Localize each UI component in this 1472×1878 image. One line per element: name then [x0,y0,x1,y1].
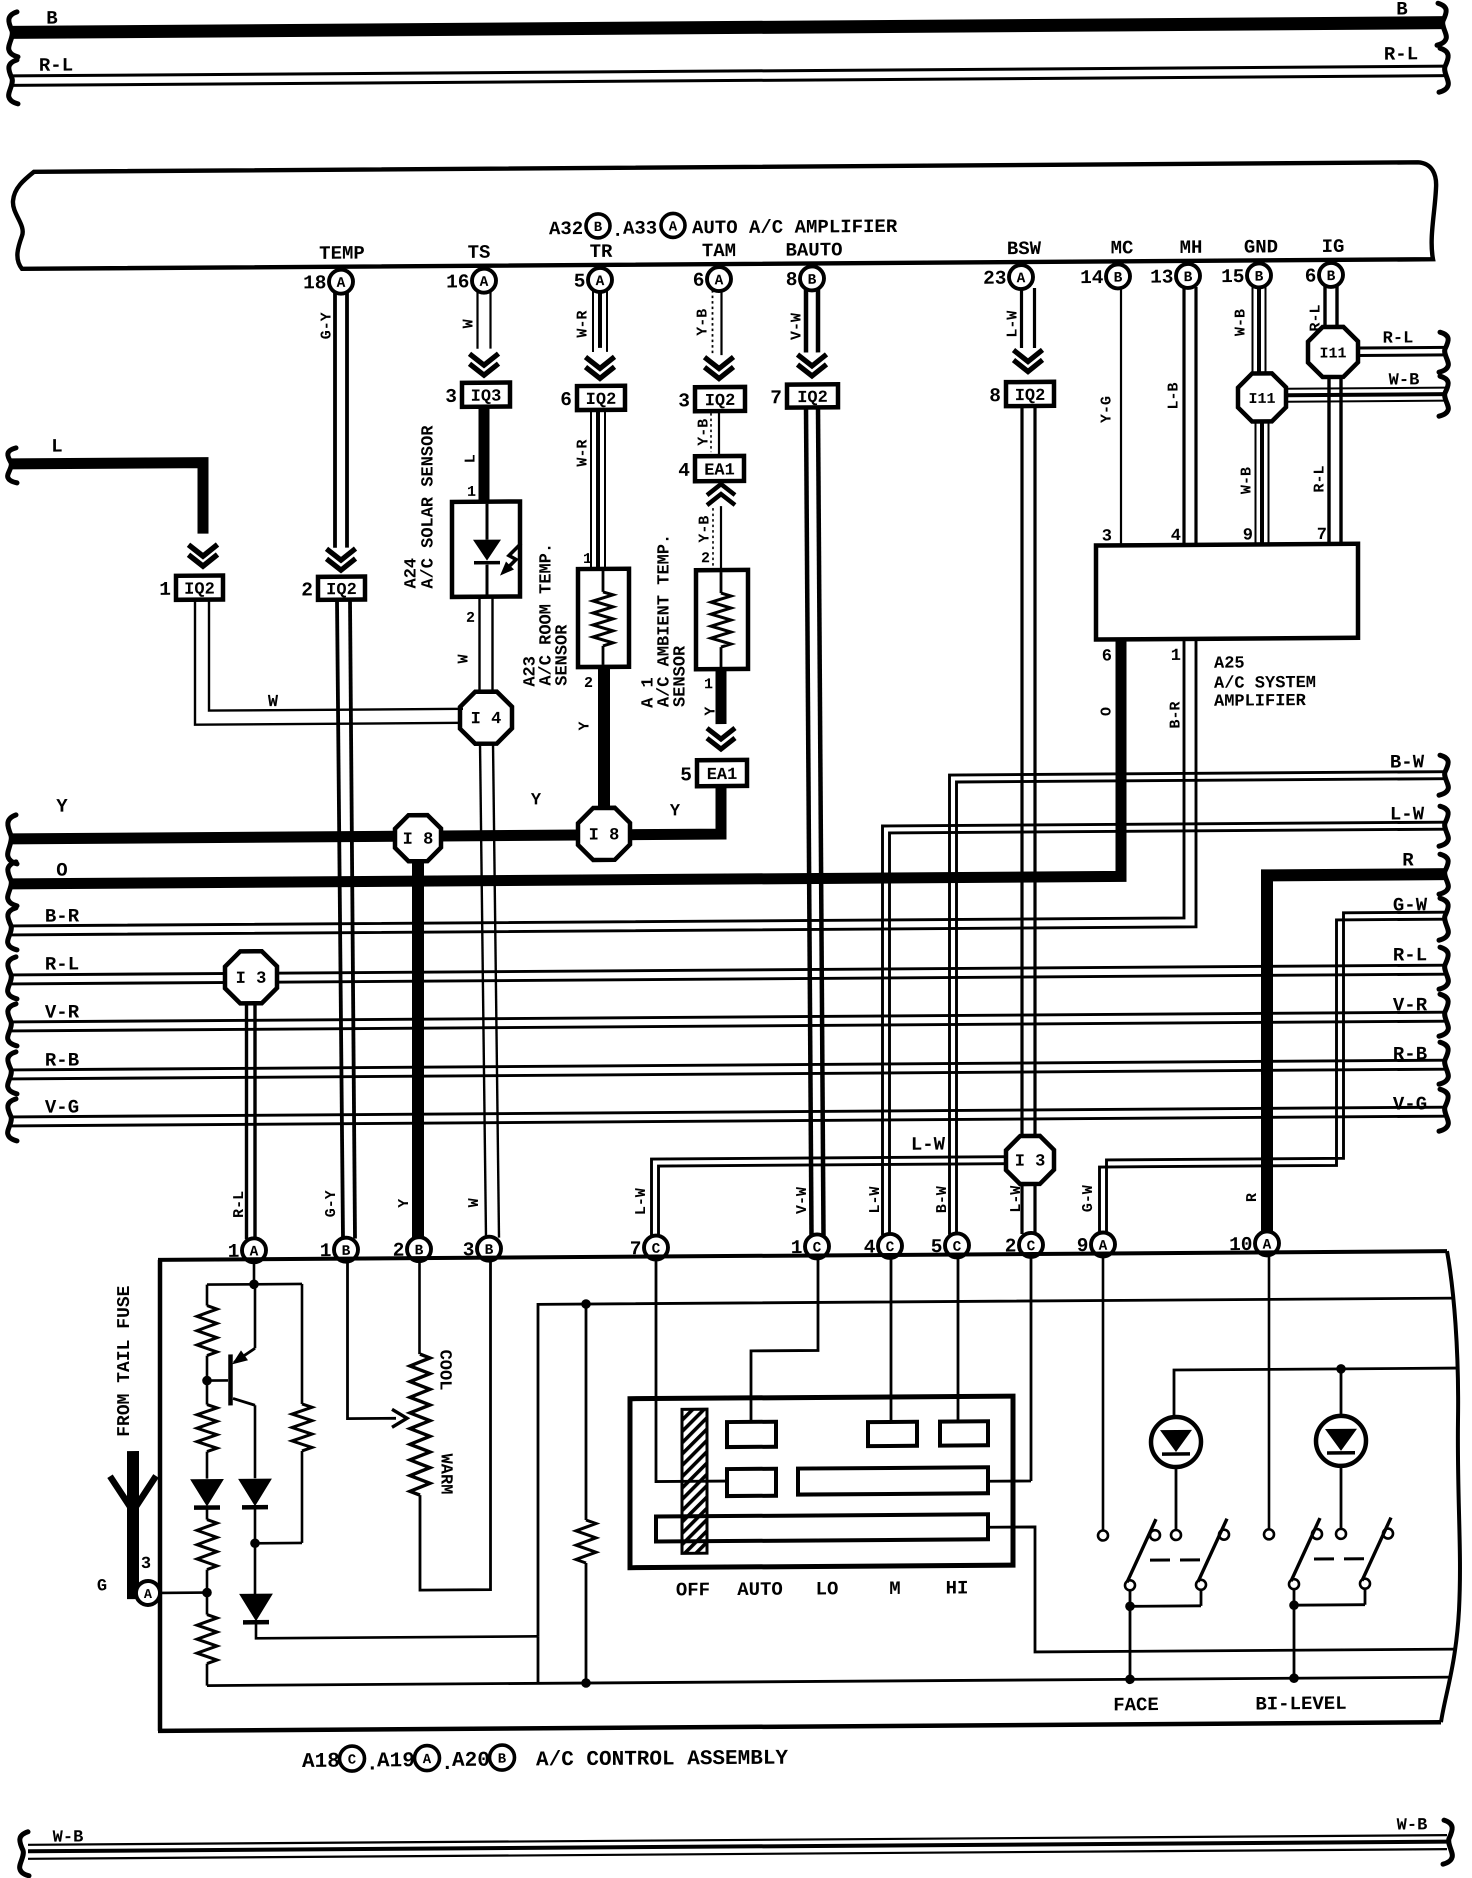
wire bus B (thick) [10,23,1444,33]
wire junction D to D3 [254,1543,257,1594]
wire bus V-G [10,1107,1446,1126]
brace left L [8,448,17,483]
svg-text:R-B: R-B [1393,1043,1427,1065]
pin 6(B) IG of A32/A33 [1305,263,1343,288]
svg-text:3: 3 [1102,527,1112,546]
wire D3 to x538 vertical [256,1620,538,1638]
svg-text:1: 1 [467,484,476,501]
svg-text:O: O [1099,707,1116,716]
svg-text:V-W: V-W [789,313,806,340]
wire bus V-R [10,1012,1446,1031]
svg-text:L: L [463,454,480,463]
svg-text:AUTO: AUTO [737,1579,783,1601]
wire W-R from 6 IQ2 to room sensor [591,410,605,570]
switch blade bilevel right [1362,1518,1391,1581]
wire W from solar sensor to junction I4 [480,597,493,693]
brace right G-W [1439,898,1448,940]
resistor R2 [197,1405,217,1452]
svg-text:SENSOR: SENSOR [554,624,573,686]
wire x538 lower [537,1636,540,1683]
svg-text:L-W: L-W [911,1134,946,1156]
brace right B [1437,3,1446,45]
svg-text:SENSOR: SENSOR [672,645,691,707]
switch blade bilevel left [1291,1518,1320,1581]
svg-text:L-W: L-W [1008,1186,1025,1213]
wire bus B-W [950,772,1447,1235]
wire G-Y from 2 IQ2 to pin 1(B) [337,600,355,1239]
svg-text:A19: A19 [377,1750,415,1773]
svg-text:A/C CONTROL ASSEMBLY: A/C CONTROL ASSEMBLY [536,1748,788,1773]
wire R2 to D1 [206,1452,209,1479]
pin 15(B) GND of A32/A33 [1221,263,1271,288]
svg-text:W: W [461,319,478,328]
junction I8 right [578,808,630,860]
svg-text:A18: A18 [302,1751,340,1774]
wire R3 to junction C [206,1570,209,1593]
wire T6 to right edge [988,1524,1456,1652]
wire collector to D2 [254,1477,257,1480]
svg-text:IQ2: IQ2 [184,581,215,600]
switch link bilevel [1314,1557,1364,1560]
svg-text:A: A [715,273,724,289]
svg-text:G: G [97,1577,107,1596]
svg-text:A20: A20 [452,1750,490,1773]
svg-text:R-L: R-L [45,953,79,975]
contact face left bottom [1125,1580,1135,1590]
junction dot rail-R6 [581,1299,591,1309]
svg-text:A33: A33 [623,218,657,240]
arrow into 1 IQ2.. chevron TEMP [327,549,356,571]
component A32/A33 AUTO A/C AMPLIFIER box [13,162,1436,269]
wire bus Y thick [10,836,396,839]
svg-text:OFF: OFF [676,1579,710,1601]
brace left B [9,12,18,57]
brace left B-R [8,908,17,950]
junction dot A [249,1279,259,1289]
brace right R-L [1439,947,1448,989]
terminal T6 [656,1514,988,1541]
svg-text:IG: IG [1322,236,1345,258]
svg-text:Y-G: Y-G [1099,396,1116,423]
wire R-L from I3 to pin 1(A) [247,1002,256,1239]
svg-text:B: B [808,273,817,289]
brace left R-L top [9,60,18,104]
brace right W-B I11 [1439,376,1448,416]
wire W from I4 to pin 3(B) [480,743,499,1238]
svg-text:8: 8 [786,269,798,291]
svg-text:W-B: W-B [1397,1816,1428,1835]
transistor Q1 base bar [228,1354,233,1405]
svg-text:IQ2: IQ2 [586,391,617,410]
svg-text:AUTO A/C AMPLIFIER: AUTO A/C AMPLIFIER [692,216,898,239]
svg-text:R-L: R-L [231,1191,248,1218]
wire L-W from pin 23(A) [1022,288,1035,348]
junction dot bilevel rail [1289,1673,1299,1683]
svg-text:2: 2 [701,550,710,567]
wire Y-B from pin 6(A) [713,290,722,355]
wire 9(A) down to contact [1102,1256,1105,1530]
wire V-W from pin 8(B) [806,289,818,352]
svg-text:IQ3: IQ3 [471,388,502,407]
switch link face [1150,1558,1200,1561]
svg-text:A: A [669,219,678,235]
svg-text:Y-B: Y-B [696,419,713,446]
svg-text:7: 7 [770,387,782,409]
wire bus L-W [883,822,1447,1235]
svg-text:AMPLIFIER: AMPLIFIER [1214,692,1307,712]
connector 7 IQ2 [770,384,838,409]
svg-text:W: W [466,1198,483,1207]
svg-text:W-B: W-B [53,1828,84,1847]
arrow chevron TR [586,357,615,379]
wire from pin 1(A) down [253,1262,256,1284]
component A25 A/C system amplifier box [1096,544,1358,640]
wire bus R-B [10,1060,1446,1079]
wire face common [1130,1590,1201,1606]
switch blade face right [1198,1519,1227,1582]
resistor R6 [576,1520,596,1563]
svg-text:Y: Y [670,802,681,821]
arrow chevron up into 4 EA1 [707,484,735,505]
arrow on tail fuse wire [110,1476,156,1511]
contact bilevel right top [1383,1529,1393,1539]
wire G-Y from pin 18(A) to connector IQ2 [335,293,347,548]
svg-text:Y: Y [703,707,720,716]
terminal T4 [727,1469,776,1496]
svg-text:6: 6 [693,270,705,292]
arrow chevron to 5 EA1 [707,728,735,749]
component A1 A/C ambient temp sensor box [696,570,748,669]
rheostat COOL-WARM [410,1354,430,1495]
arrow chevron TAM [705,357,734,379]
brace right W-B [1443,1820,1452,1864]
svg-text:L: L [51,436,62,458]
wire base lead [207,1379,228,1382]
wire right branch from junction A [301,1284,304,1404]
svg-text:W-B: W-B [1239,467,1256,494]
wire L-W from pin 7(C) to I3 [652,1157,1007,1237]
svg-text:COOL: COOL [435,1350,454,1391]
svg-text:Y: Y [56,796,68,818]
svg-text:L-B: L-B [1166,382,1183,409]
svg-text:13: 13 [1150,267,1173,289]
svg-text:B: B [594,220,603,236]
diode D1 [191,1479,223,1507]
svg-text:A: A [337,276,346,292]
svg-text:6: 6 [1102,647,1112,666]
pin 6(A) TAM of A32/A33 [693,267,731,292]
connector 2 IQ2 [301,577,365,602]
brace left V-G [8,1099,17,1141]
junction I8 left [395,815,441,861]
wire L thick from left [10,463,203,535]
wire W from 1 IQ2 to I4 [195,599,463,725]
pin 16(A) TS of A32/A33 [446,269,496,294]
wire from pin 2(B) to rheostat [418,1261,421,1354]
svg-text:A32: A32 [549,218,583,240]
wire junction C to R4 [206,1593,209,1615]
wire B-R from A25 pin 1 to B-R bus [10,639,1196,935]
svg-text:I 8: I 8 [589,826,620,845]
wire bottom rail [207,1677,1452,1685]
junction dot face rail [1125,1674,1135,1684]
svg-text:23: 23 [983,268,1006,290]
pin 4(C) of A/C control assembly [864,1234,902,1259]
wire Y thick from 5 EA1 to I8 [630,786,721,835]
wire rheostat bottom to pin 3(B) [420,1261,491,1590]
contact bilevel left bottom [1289,1579,1299,1589]
svg-text:A: A [423,1752,432,1768]
LED FACE illumination [1151,1417,1201,1467]
wire R1 to junction B [206,1356,209,1381]
pin 1(A) of A/C control assembly [228,1238,266,1263]
resistor R3 [197,1520,217,1570]
resistor R5 [292,1404,312,1451]
LED BI-LEVEL illumination [1316,1416,1366,1466]
pin 8(B) BAUTO of A32/A33 [786,266,824,291]
svg-text:1: 1 [1171,647,1181,666]
svg-text:IQ2: IQ2 [326,581,357,600]
brace left O [8,862,17,906]
junction dot bilevel common [1289,1600,1299,1610]
wire D1 to R3 [206,1508,209,1520]
svg-text:Y-B: Y-B [697,516,714,543]
svg-text:R-L: R-L [1393,944,1427,966]
svg-text:TEMP: TEMP [319,243,365,265]
wire LED1 cathode [1175,1467,1178,1530]
contact face right bottom [1196,1580,1206,1590]
pin 14(B) MC of A32/A33 [1080,264,1130,289]
svg-text:M: M [889,1578,900,1600]
contact LED1 [1171,1530,1181,1540]
contact LED2 [1336,1529,1346,1539]
brace right R [1439,854,1448,894]
svg-text:B-R: B-R [45,905,80,927]
wire LED rail [1174,1368,1457,1417]
contact feed 9A [1098,1530,1108,1540]
wire bus R-L top (double) [10,66,1446,85]
diode D2 [239,1479,271,1507]
wire junction B down [206,1381,209,1405]
svg-text:B-W: B-W [934,1186,951,1213]
svg-text:EA1: EA1 [704,461,735,480]
wire Y thick from ambient sensor [716,669,727,724]
wire W-B from I11 to A25 pin 9 [1256,421,1269,544]
svg-text:EA1: EA1 [707,766,738,785]
switch blade face left [1127,1519,1156,1582]
svg-text:B: B [1114,271,1123,287]
svg-text:MH: MH [1180,237,1203,259]
svg-text:16: 16 [446,271,469,293]
svg-text:TAM: TAM [702,240,736,262]
svg-text:V-G: V-G [1393,1093,1427,1115]
svg-text:G-Y: G-Y [319,312,336,339]
brace right R-L top [1439,48,1448,92]
wire 5(C) to T3 [957,1257,960,1421]
svg-text:MC: MC [1111,237,1134,259]
connector 3 IQ3 [445,383,510,408]
svg-text:W: W [268,693,279,712]
junction dot C [202,1588,212,1598]
wire bus O thick [10,692,1121,884]
svg-text:I11: I11 [1319,345,1346,362]
svg-text:1: 1 [704,676,713,693]
svg-text:2: 2 [301,579,313,601]
diode D3 [240,1594,272,1622]
wire Y-B from 3 IQ2 to 4 EA1 [711,411,719,454]
wire L-W from 8 IQ2 through I3 to pin 2(C) [1022,406,1035,1234]
brace left R-L [8,957,17,999]
svg-text:B-W: B-W [1390,751,1425,773]
junction I4 [460,692,512,744]
svg-text:HI: HI [946,1577,969,1599]
wire left branch upper [206,1285,209,1306]
brace right L-W [1439,806,1448,846]
brace right V-R [1439,994,1448,1036]
svg-text:LO: LO [816,1578,839,1600]
wire G thick from tail fuse [133,1451,137,1593]
svg-text:3: 3 [678,390,690,412]
brace right R-L I11 [1439,332,1448,372]
connector 8 IQ2 [989,382,1054,407]
svg-text:W-R: W-R [575,439,592,466]
svg-text:L-W: L-W [867,1186,884,1213]
svg-text:5: 5 [680,764,692,786]
wire R6 upper [585,1304,588,1520]
svg-text:WARM: WARM [436,1454,455,1495]
junction dot R6-bottomrail [581,1678,591,1688]
junction I3 lower [1006,1136,1054,1184]
wire R4 to bottom rail [206,1664,209,1686]
svg-text:Y: Y [577,721,594,730]
wire bus Y between I8s [440,830,579,842]
svg-text:IQ2: IQ2 [705,392,736,411]
svg-text:I 3: I 3 [1015,1152,1046,1171]
svg-text:14: 14 [1080,267,1104,289]
svg-text:L-W: L-W [633,1188,650,1215]
pin 3(A) of control assembly [136,1581,160,1605]
junction dot B [202,1376,212,1386]
wire bilevel common down [1293,1605,1296,1678]
svg-text:BAUTO: BAUTO [785,239,842,261]
svg-text:15: 15 [1221,266,1244,288]
svg-text:Y: Y [531,791,542,810]
svg-text:B: B [498,1752,507,1768]
connector circle C of A18 [340,1746,365,1771]
connector 5 EA1 [680,760,747,786]
svg-text:2: 2 [584,675,593,692]
svg-text:I11: I11 [1248,391,1275,408]
wire R-L from I11 to A25 pin 7 [1329,377,1341,544]
svg-text:B-R: B-R [1168,701,1185,728]
contact feed 10A [1264,1529,1274,1539]
wire V-W from 7 IQ2 to pin 1(C) [806,407,824,1235]
connector circle A of A19 [415,1746,440,1771]
contact face right top [1219,1530,1229,1540]
wire O thick from A25 pin 6 to O bus [1116,639,1127,876]
junction I11 upper [1308,327,1358,377]
wire LED2 anode [1340,1369,1343,1416]
svg-text:FACE: FACE [1113,1694,1159,1716]
wire L thick from 3 IQ3 to solar sensor [479,407,490,503]
transistor Q1 emitter [232,1284,255,1364]
svg-text:A: A [1017,271,1026,287]
pin 13(B) MH of A32/A33 [1150,264,1200,289]
svg-text:.: . [612,220,623,242]
junction dot LED2 [1336,1364,1346,1374]
wire R5 down [301,1451,304,1543]
svg-text:A: A [144,1588,153,1603]
svg-text:B: B [1255,270,1264,286]
svg-text:1: 1 [159,579,171,601]
wire junction A horizontal [207,1283,302,1286]
wire wiper from pin 1(B) [348,1261,397,1418]
svg-text:IQ2: IQ2 [797,389,828,408]
wire junction D link [255,1542,302,1545]
hatched slider [682,1409,707,1553]
brace right B-W [1439,755,1448,795]
wire Y thick from I8 to pin 2(B) [412,861,424,1238]
svg-text:A/C SOLAR SENSOR: A/C SOLAR SENSOR [420,425,439,589]
wire bus R thick [1267,874,1446,1232]
junction dot face common [1125,1601,1135,1611]
svg-text:I 3: I 3 [236,970,267,989]
svg-text:3: 3 [141,1555,151,1574]
pin 23(A) BSW of A32/A33 [983,265,1033,290]
resistor of ambient sensor [711,572,731,667]
svg-text:2: 2 [466,610,475,627]
connector circle B of A20 [490,1745,515,1770]
wire Y thick from room sensor to I8 [598,667,610,808]
pin 9(A) of A/C control assembly [1077,1232,1115,1257]
svg-text:5: 5 [574,271,586,293]
component A23 A/C room temp sensor box [578,569,629,667]
connector 1 IQ2 [159,575,223,600]
svg-text:R: R [1402,849,1414,871]
pin 2(C) of A/C control assembly [1005,1233,1043,1258]
svg-text:V-W: V-W [794,1187,811,1214]
wire W-R from pin 5(A) [593,291,607,352]
svg-text:R-L: R-L [1312,465,1329,492]
terminal T5 [798,1467,988,1494]
connector 3 IQ2 [678,387,745,412]
wire 1(C) to T1 [751,1258,818,1421]
wire bilevel common [1294,1589,1365,1605]
brace left R-B [8,1052,17,1094]
wire Y-G from pin 14(B) to A25 pin 3 [1120,287,1122,545]
photodiode of solar sensor [473,503,521,594]
svg-text:4: 4 [1171,527,1181,546]
svg-text:4: 4 [678,460,690,482]
wire inner rail [538,1298,1455,1636]
arrow chevron BAUTO [798,354,827,376]
transistor Q1 collector [233,1398,255,1478]
svg-text:A: A [480,275,489,291]
svg-text:BSW: BSW [1007,238,1042,260]
resistor R1 [197,1306,217,1356]
svg-text:R-L: R-L [1383,329,1414,348]
pin 2(B) of A/C control assembly [393,1237,431,1262]
wire L-B from pin 13(B) to A25 pin 4 [1184,287,1196,545]
wire R-L from pin 6(B) to I11 [1325,286,1337,328]
wire D2 to junction D [254,1507,257,1543]
svg-text:B: B [1327,269,1336,285]
svg-text:8: 8 [989,385,1001,407]
pin 5(C) of A/C control assembly [931,1233,969,1258]
svg-text:W-B: W-B [1389,371,1420,390]
wire bus W-B from I11 to edge [1286,388,1446,402]
wire bus W-B bottom [28,1835,1447,1859]
